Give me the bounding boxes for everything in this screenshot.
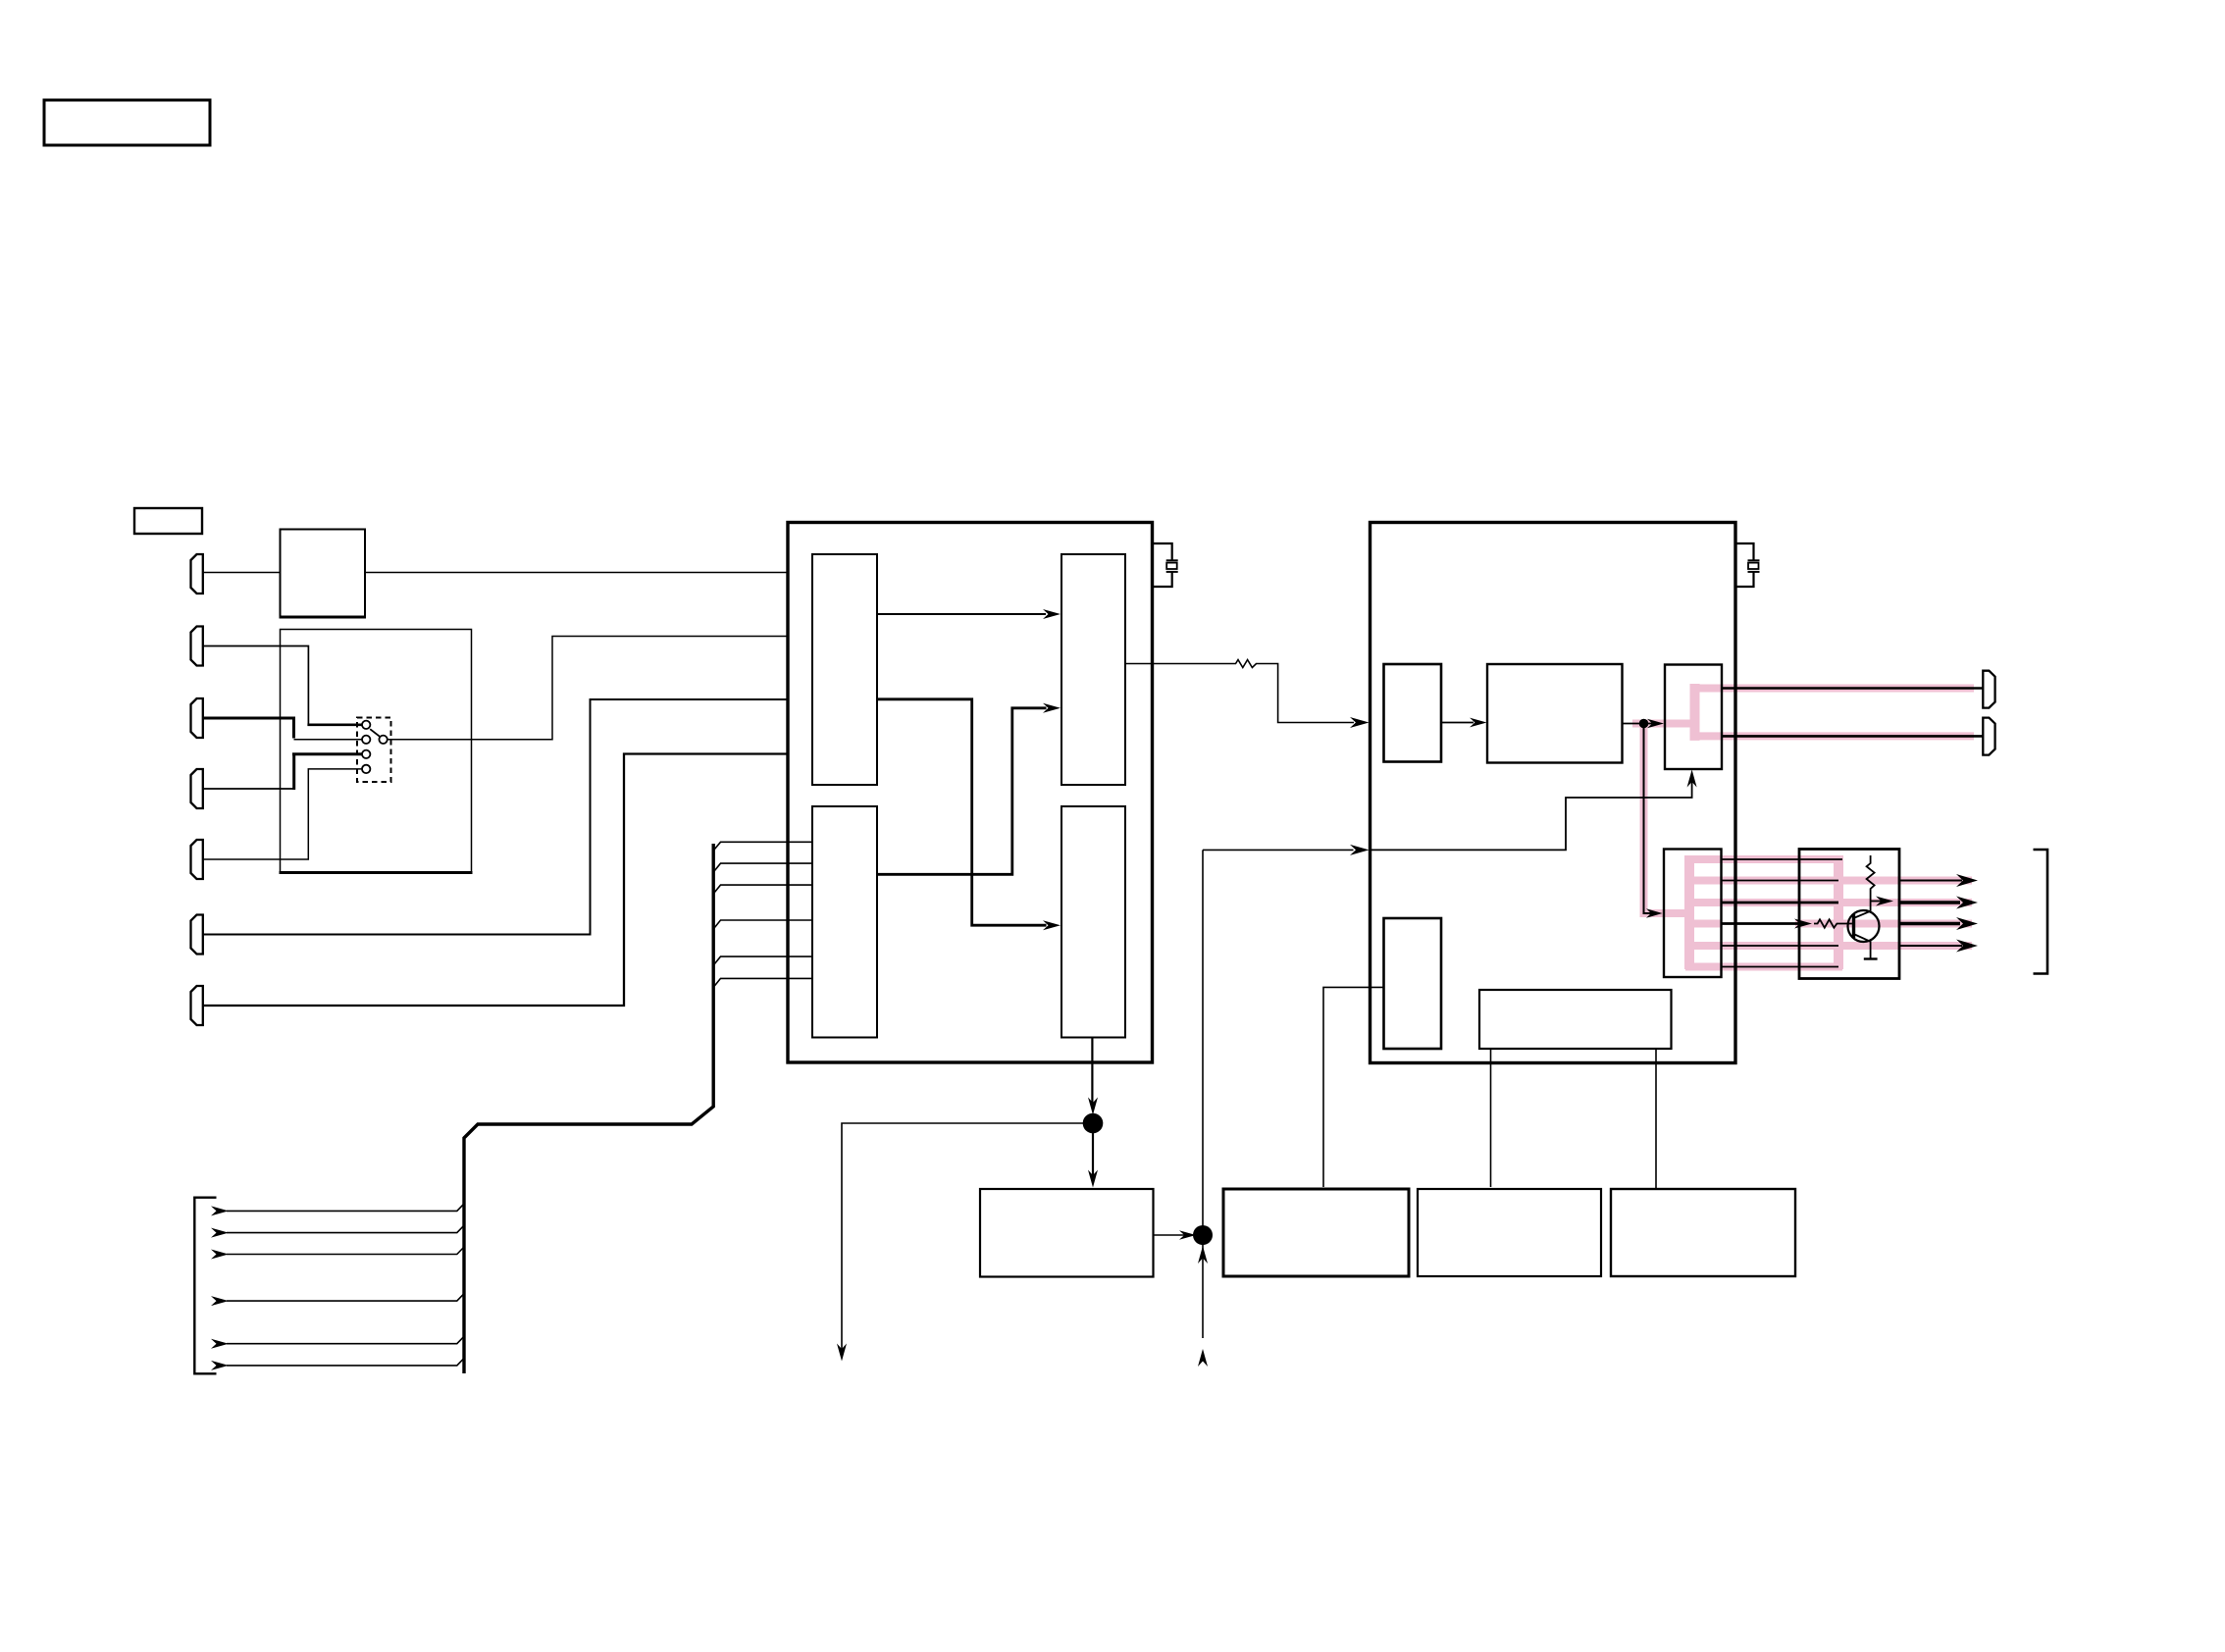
- block B thick bottom edge: [280, 616, 367, 619]
- wire node J1 left and down with arrow: [842, 1123, 1093, 1352]
- wire CN4 to switch pole c: [203, 788, 294, 790]
- key line 1 with arrow: [227, 1204, 464, 1211]
- BLACK_LAYER2: [788, 523, 1370, 1368]
- key line 2 with arrow: [227, 1226, 464, 1233]
- output arrow row2: [1899, 880, 1962, 882]
- connector CN1: [191, 554, 203, 594]
- wire CN7 to IC1: [203, 754, 788, 1007]
- switch pole d circle: [362, 765, 370, 773]
- transistor Q1 base bar: [1852, 914, 1855, 938]
- IC2 main sound/driver box: [1371, 523, 1736, 1063]
- up arrowhead below node J2: [1198, 1246, 1208, 1264]
- wire switch common to IC1: [388, 637, 788, 740]
- arrow node J1 down into box SYS1: [1092, 1123, 1094, 1179]
- output arrow row5: [1899, 945, 1962, 947]
- wire into IC2 left edge with arrow (from long vertical): [1203, 849, 1354, 851]
- wire audio top to connector CN8: [1722, 687, 1983, 690]
- wire CN4 riser (thick) to pole c: [292, 754, 362, 790]
- title box: [44, 100, 210, 145]
- key line 5 with arrow: [227, 1337, 464, 1344]
- crystal X2 body: [1748, 563, 1759, 569]
- up arrowhead at wire bottom end: [1198, 1349, 1208, 1367]
- IC1 block A (top-left): [812, 554, 877, 785]
- BLACK_LAYER3: [1223, 523, 2047, 1277]
- bus branch KS1 into IC1: [713, 842, 812, 851]
- output arrow row4 (thick): [1899, 922, 1960, 925]
- key-scan bus (thick): [464, 844, 713, 1373]
- wire block J to box SYS4: [1655, 1049, 1657, 1188]
- row6 black H to T bus: [1722, 966, 1839, 968]
- connector CN4: [191, 769, 203, 808]
- arrow block E to block F: [1441, 722, 1474, 724]
- bracket left (key inputs): [194, 1198, 216, 1374]
- wire pink row2 H to output: [1685, 877, 1972, 885]
- connector CN9: [1983, 718, 1994, 755]
- box SYS3 (bottom row box 3): [1418, 1189, 1601, 1276]
- transistor box T: [1799, 850, 1899, 979]
- wire pink highlight: node down to block H: [1640, 720, 1648, 914]
- wire block F to node J3: [1623, 723, 1640, 725]
- row2 black H to T bus: [1722, 880, 1839, 882]
- bus branch KS4 into IC1: [713, 920, 812, 929]
- wire block C output through resistor R1 to IC2: [1125, 660, 1354, 723]
- wire CN5 to switch pole d: [203, 769, 362, 859]
- crystal X1 bottom plate: [1166, 571, 1178, 573]
- PINK_LAYER: [1632, 684, 1974, 969]
- wire pink row1 H to T: [1685, 855, 1842, 863]
- key line 3 with arrow: [227, 1248, 464, 1255]
- arrowhead into IC2 left edge: [1350, 717, 1370, 728]
- row4 black H into T with arrow (thick): [1722, 922, 1802, 925]
- bus branch KS6 into IC1: [713, 978, 812, 987]
- resistor R2 (vertical): [1867, 855, 1875, 911]
- wire CN2 thick tail to pole a: [307, 723, 362, 726]
- crystal X1 body: [1166, 563, 1177, 569]
- IC2 block J (bottom wide): [1479, 990, 1672, 1049]
- IC1 main microcontroller box: [788, 523, 1153, 1063]
- connector CN6: [191, 915, 203, 955]
- transistor Q1 emitter: [1855, 935, 1871, 959]
- connector CN7: [191, 986, 203, 1025]
- crystal X1 leads: [1153, 543, 1172, 587]
- ground bar: [1864, 957, 1878, 959]
- connector CN3: [191, 698, 203, 738]
- wire pink highlight: DAC output node to AMP block G: [1632, 720, 1695, 728]
- arrow block A to block C: [877, 613, 1046, 615]
- wire pink row4 T to output: [1795, 920, 1972, 928]
- wire pink bus inside transistor box T: [1834, 855, 1843, 969]
- crystal X2 bottom plate: [1748, 571, 1760, 573]
- wire pink bus inside block H: [1684, 855, 1694, 969]
- IC1 block B (bottom-left, key scan): [812, 806, 877, 1038]
- IC2 block I: [1384, 918, 1442, 1049]
- row1 black H to T bus: [1722, 858, 1843, 860]
- arrow node J3 down into block H: [1644, 726, 1656, 913]
- label box (small rectangle above connectors): [134, 508, 202, 534]
- wire block D bottom output: [1091, 1038, 1093, 1108]
- junction node J3: [1639, 719, 1649, 729]
- block: reset/power box B: [281, 530, 366, 618]
- wire CN3 (thick) to switch pole b: [203, 718, 294, 739]
- IC1 block D (bottom-right): [1061, 806, 1125, 1038]
- wire pink row5 H to output: [1685, 942, 1972, 950]
- switch pole b circle: [362, 736, 370, 744]
- box SYS4 (bottom row box 4): [1611, 1189, 1795, 1276]
- wire pink highlight: audio line to connector CN top: [1691, 685, 1975, 693]
- IC2 block G (output amp): [1665, 665, 1722, 770]
- key line 6 with arrow: [227, 1359, 464, 1366]
- bus branch KS3 into IC1: [713, 885, 812, 894]
- junction node J2: [1193, 1225, 1213, 1245]
- wire CN6 to IC1: [203, 699, 788, 935]
- wire mute line into block G bottom: [1371, 776, 1692, 850]
- switch common circle: [379, 736, 387, 744]
- wire pink row4 inside H: [1685, 920, 1722, 928]
- transistor Q1 collector: [1855, 911, 1871, 918]
- crystal X2 top plate: [1748, 559, 1760, 561]
- IC2 block H (DAC): [1664, 850, 1722, 978]
- wire audio bottom to connector CN9: [1722, 735, 1983, 738]
- wire CN3 thin tail to pole b: [294, 739, 363, 741]
- crystal X1 top plate: [1166, 559, 1178, 561]
- arrow block B to block C: [877, 708, 1047, 875]
- switch pole c circle: [362, 750, 370, 758]
- bracket right (speaker outputs): [2034, 850, 2048, 974]
- BLACK_LAYER: [44, 100, 813, 1373]
- key matrix box thick bottom edge: [280, 871, 473, 874]
- wire pink highlight: audio line to connector CN bottom: [1691, 732, 1975, 740]
- bus branch KS2 into IC1: [713, 863, 812, 872]
- box SYS2 (bottom row box 2): [1223, 1189, 1409, 1276]
- block: key matrix box: [281, 630, 472, 873]
- wire block J to box SYS3: [1490, 1049, 1492, 1187]
- switch pole a circle: [362, 721, 370, 729]
- IC1 block C (top-right): [1061, 554, 1125, 785]
- wire pink highlight: entry into block H: [1640, 909, 1690, 917]
- wire CN1 to box B to IC1: [203, 572, 788, 574]
- output arrow row3 (thick): [1899, 901, 1960, 903]
- switch SW1 dashed boundary: [357, 718, 391, 783]
- crystal X2 leads: [1735, 543, 1754, 587]
- row3 black H to T bus (thick): [1722, 902, 1839, 904]
- row5 black H to T bus: [1722, 945, 1839, 947]
- arrowhead into node J1: [1088, 1098, 1098, 1115]
- long signal wire vertical to IC2 block H: [1202, 850, 1204, 1338]
- resistor R3 (base, horizontal): [1814, 919, 1852, 927]
- bus branch KS5 into IC1: [713, 956, 812, 965]
- box SYS1 (bottom row box 1): [980, 1189, 1154, 1277]
- connector CN2: [191, 627, 203, 666]
- transistor Q1 circle: [1848, 910, 1880, 942]
- junction node J1: [1083, 1113, 1104, 1134]
- collector tap arrow: [1871, 901, 1882, 903]
- IC2 block E: [1384, 664, 1442, 762]
- switch lever: [370, 729, 380, 737]
- wire CN2 to switch pole a: [203, 646, 309, 725]
- arrow block A to block D: [877, 699, 1047, 925]
- wire box SYS2 up into block I: [1323, 987, 1384, 1187]
- key line 4 with arrow: [227, 1294, 464, 1301]
- wire pink row3 H to output: [1685, 899, 1972, 906]
- connector CN8: [1983, 671, 1994, 708]
- wire pink bus inside AMP block G: [1690, 684, 1700, 741]
- wire pink row6 H to T: [1685, 963, 1842, 971]
- connector CN5: [191, 840, 203, 879]
- arrow node J3 into block G: [1644, 723, 1653, 725]
- IC2 block F: [1487, 664, 1623, 763]
- arrow box SYS1 to node J2: [1154, 1234, 1190, 1236]
